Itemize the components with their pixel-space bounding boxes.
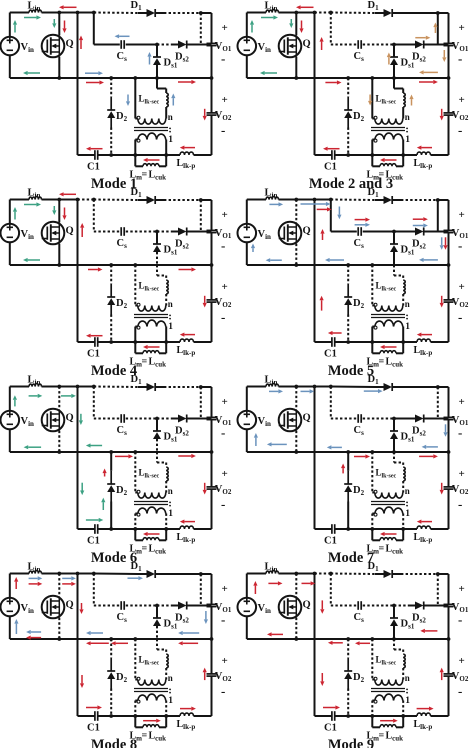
wire left vertical from top rail to bottom rail — [77, 387, 79, 530]
node mid rail secondary branch — [370, 450, 374, 454]
leakage inductor Llk-p — [180, 152, 194, 155]
wire secondary left vertical — [134, 78, 136, 119]
current arrow red — [81, 228, 83, 237]
wire top rail Q node to left-vertical node — [59, 12, 77, 14]
wire Q drain vertical — [295, 387, 297, 410]
svg-text:1: 1 — [168, 696, 173, 706]
wire left source branch of Vin — [246, 13, 248, 37]
output capacitor VO1 — [444, 603, 454, 605]
transformer primary winding 1 — [135, 513, 138, 515]
node top rail Q drain — [57, 11, 61, 15]
wire right rail VO2 to bottom — [448, 115, 450, 155]
wire D2 upper — [110, 639, 112, 658]
current arrow red — [184, 521, 195, 523]
svg-text:-: - — [458, 612, 462, 627]
wire bottom rail left — [78, 528, 95, 530]
wire top rail to D1 anode — [331, 386, 375, 389]
wire Cs feed corner — [330, 387, 332, 419]
current arrow green — [251, 25, 253, 33]
diode Ds2 — [178, 415, 187, 423]
wire top-right elbow to right rail — [438, 573, 449, 575]
node mid rail right rail — [447, 637, 451, 641]
svg-text:+: + — [459, 281, 465, 293]
diode D1 — [147, 196, 156, 204]
current arrow blue — [445, 424, 447, 432]
current arrow red — [91, 335, 103, 337]
node mid rail Q source — [294, 450, 298, 454]
wire top-right elbow to right rail — [438, 386, 449, 388]
current arrow red — [441, 483, 443, 490]
diode Ds1 — [390, 617, 398, 619]
current arrow blue — [31, 631, 41, 633]
wire D2 lower — [347, 128, 349, 156]
magnetizing inductor Lm=Lcuk loop — [134, 155, 136, 166]
capacitor C1 — [331, 524, 333, 534]
wire D1 cathode to corner node — [155, 199, 164, 201]
transformer secondary winding n — [135, 118, 138, 120]
node at D1 corner — [436, 11, 440, 15]
capacitor Cs — [357, 227, 359, 236]
transformer secondary winding n — [135, 305, 138, 307]
svg-text:=: = — [379, 544, 385, 555]
transistor Q MOSFET — [42, 35, 65, 58]
node top rail Q drain — [57, 572, 61, 576]
wire top rail Lin to Q drain node — [279, 386, 297, 388]
current arrow red — [328, 148, 340, 150]
current arrow orange — [388, 57, 390, 64]
wire to Llk-p — [166, 154, 180, 156]
transformer secondary winding n — [372, 118, 375, 120]
node mid rail Ds1 branch — [392, 637, 396, 641]
output capacitor VO1 — [444, 42, 454, 44]
svg-text:=: = — [379, 731, 385, 742]
node bottom rail D2 — [346, 527, 350, 531]
wire Llk-sec to secondary winding — [402, 668, 404, 680]
current arrow red — [204, 672, 206, 680]
wire bottom rail under primary — [372, 715, 403, 717]
svg-text:n: n — [405, 673, 410, 683]
svg-text:C1: C1 — [324, 536, 337, 547]
current arrow green — [80, 414, 82, 421]
svg-text:-: - — [458, 310, 462, 325]
leakage inductor Llk-sec — [403, 280, 405, 294]
wire Llk-p to right rail — [431, 715, 449, 717]
current arrow orange — [434, 27, 436, 33]
node top rail Cs corner — [329, 198, 333, 202]
diode D1 — [384, 383, 393, 391]
wire vertical drop from D1 corner node — [200, 574, 202, 606]
wire bottom rail C1 to transformer — [98, 528, 135, 530]
transformer core — [134, 127, 168, 129]
wire jog Ds1 to Llk-sec — [156, 639, 158, 650]
node mid rail Q source — [294, 76, 298, 80]
node mid rail secondary branch — [370, 76, 374, 80]
transformer secondary winding n — [372, 492, 375, 494]
wire Cs feed corner — [93, 574, 95, 606]
node mid rail Q source — [294, 263, 298, 267]
wire right rail VO1 to mid rail — [211, 420, 213, 452]
node mid rail right rail — [447, 263, 451, 267]
wire primary left vertical — [134, 327, 136, 343]
wire top rail to Cs corner — [315, 12, 331, 14]
leakage inductor Llk-p — [180, 713, 194, 716]
node Ds1 top — [392, 43, 396, 47]
current arrow red — [333, 332, 342, 334]
current arrow red — [360, 642, 370, 644]
svg-text:=: = — [142, 731, 148, 742]
current arrow red — [81, 675, 83, 683]
leakage inductor Llk-p — [180, 339, 194, 342]
wire primary right vertical — [402, 140, 404, 156]
svg-text:-: - — [221, 684, 225, 699]
node mid rail D2 branch — [346, 263, 350, 267]
current arrow blue — [424, 259, 438, 261]
node mid rail secondary branch — [133, 263, 137, 267]
current arrow red — [385, 346, 397, 348]
output capacitor VO2 — [444, 299, 454, 301]
wire top rail Lin to Q drain node — [279, 573, 297, 575]
svg-text:Q: Q — [66, 39, 74, 50]
wire mid rail — [10, 638, 212, 640]
current arrow blue — [252, 248, 254, 252]
diode D2 — [347, 471, 349, 484]
magnetizing inductor Lm=Lcuk loop — [134, 342, 136, 353]
current arrow blue — [29, 577, 38, 579]
inductor Lin coil — [266, 9, 279, 12]
wire vertical drop from D1 corner node — [437, 387, 439, 419]
node mid rail Ds1 branch — [392, 76, 396, 80]
wire Cs to Ds1 node — [126, 44, 157, 46]
wire bottom rail left — [315, 528, 332, 530]
current arrow green — [28, 259, 40, 261]
panel Mode 6 — [1, 374, 232, 566]
svg-text:1: 1 — [168, 135, 173, 145]
wire bottom rail under primary — [372, 154, 403, 156]
wire bottom rail C1 to transformer — [98, 715, 135, 717]
wire Ds1 to mid rail — [156, 252, 158, 265]
magnetizing inductor Lm=Lcuk loop — [134, 529, 136, 540]
wire Ds1 to mid rail — [393, 65, 395, 78]
current arrow blue — [269, 203, 278, 205]
svg-text:+: + — [459, 22, 465, 34]
svg-text:C1: C1 — [324, 723, 337, 734]
transformer core — [134, 314, 168, 316]
wire right rail VO2 to bottom — [448, 676, 450, 716]
wire right rail mid to VO2 — [448, 78, 450, 113]
output capacitor VO1 — [444, 229, 454, 231]
panel Mode 2 and 3 — [238, 0, 469, 192]
panel Mode 4 — [1, 187, 232, 379]
wire right rail VO1 to mid rail — [211, 46, 213, 78]
diode D2 — [110, 97, 112, 110]
svg-text:+: + — [222, 468, 228, 480]
current arrow orange — [369, 95, 371, 101]
node at D1 corner — [199, 572, 203, 576]
leakage inductor Llk-sec — [403, 93, 405, 107]
node Ds1 top — [155, 604, 159, 608]
output capacitor VO2 — [207, 486, 217, 488]
svg-text:=: = — [142, 544, 148, 555]
wire vertical drop from D1 corner node — [437, 574, 439, 606]
current arrow blue — [270, 259, 282, 261]
transformer core — [134, 688, 168, 690]
wire right rail VO2 to bottom — [211, 676, 213, 716]
wire Q internal vertical — [58, 35, 60, 56]
wire D2 lower — [347, 502, 349, 530]
diode D1 — [384, 9, 393, 17]
node top rail Cs corner — [92, 572, 96, 576]
wire jog Ds1 to Llk-sec — [393, 78, 395, 89]
wire right rail mid to VO2 — [211, 639, 213, 674]
node top rail left-vertical — [313, 11, 317, 15]
node mid rail right rail — [210, 637, 214, 641]
wire Cs to Ds1 node — [363, 44, 394, 46]
node top rail left-vertical — [313, 572, 317, 576]
node mid rail D2 branch — [109, 450, 113, 454]
node bottom rail D2 — [109, 153, 113, 157]
current arrow red — [413, 218, 424, 220]
current arrow blue — [338, 207, 340, 215]
wire to Llk-p — [403, 154, 417, 156]
wire bottom rail under primary — [135, 528, 166, 530]
svg-text::: : — [168, 311, 172, 323]
transformer primary winding 1 — [372, 139, 375, 141]
current arrow blue — [301, 203, 326, 205]
current arrow blue — [272, 443, 287, 445]
wire Ds2 cathode to VO1 — [424, 605, 449, 607]
voltage source Vin — [238, 598, 257, 617]
wire Q internal vertical — [295, 596, 297, 617]
wire Ds1 anode stub — [156, 232, 158, 245]
capacitor Cs — [120, 414, 122, 423]
wire top rail to Cs corner — [78, 199, 94, 201]
node top rail Cs corner — [329, 572, 333, 576]
current arrow red — [254, 586, 256, 594]
capacitor C1 — [331, 337, 333, 347]
magnetizing inductor Lm=Lcuk loop — [371, 529, 373, 540]
current arrow red — [272, 633, 283, 635]
wire Cs to Ds1 node — [363, 605, 394, 607]
svg-text:+: + — [222, 396, 228, 408]
wire left source branch of Vin — [9, 387, 11, 411]
wire Llk-p to right rail — [194, 154, 212, 156]
current arrow red — [86, 82, 99, 84]
current arrow red — [91, 148, 103, 150]
diode Ds1 — [153, 56, 161, 58]
svg-text:1: 1 — [405, 696, 410, 706]
wire Q internal vertical — [295, 222, 297, 243]
wire jog Ds1 to Llk-sec — [156, 265, 158, 276]
wire mid rail — [247, 77, 449, 79]
transformer core — [371, 314, 405, 316]
current arrow green — [14, 25, 16, 33]
wire Q drain vertical — [58, 574, 60, 597]
wire primary right vertical — [165, 327, 167, 343]
wire to Llk-p — [403, 341, 417, 343]
wire right rail mid to VO2 — [211, 78, 213, 113]
wire right rail VO1 to mid rail — [448, 607, 450, 639]
current arrow red — [64, 193, 76, 195]
diode Ds2 — [178, 41, 187, 49]
wire top rail Q node to left-vertical node — [296, 386, 314, 388]
wire primary left vertical — [134, 514, 136, 530]
node mid rail secondary branch — [133, 637, 137, 641]
wire D2 lower — [110, 689, 112, 717]
wire Ds1 node to Ds2 anode — [157, 418, 172, 420]
transformer secondary winding n — [372, 679, 375, 681]
node bottom rail primary right — [164, 714, 168, 718]
wire left source branch of Vin — [9, 13, 11, 37]
current arrow blue — [15, 624, 17, 634]
wire Q source vertical — [295, 57, 297, 78]
node bottom rail D2 — [109, 527, 113, 531]
svg-text:1: 1 — [405, 322, 410, 332]
wire top rail to Cs corner — [315, 199, 331, 201]
node top rail Q drain — [294, 11, 298, 15]
wire Cs feed corner — [93, 200, 95, 232]
inductor Lin coil — [266, 383, 279, 386]
wire Ds1 anode stub — [393, 232, 395, 245]
svg-text:Mode 8: Mode 8 — [91, 737, 137, 748]
wire top rail Q node to left-vertical node — [296, 12, 314, 14]
wire bottom rail left — [315, 154, 332, 156]
node mid rail Q source — [57, 450, 61, 454]
current arrow red — [385, 159, 397, 161]
node at D1 corner — [199, 198, 203, 202]
current arrow red — [88, 269, 98, 271]
wire right rail VO1 to mid rail — [448, 420, 450, 452]
node Ds1 top — [392, 230, 396, 234]
svg-text:+: + — [222, 94, 228, 106]
transformer primary winding 1 — [135, 700, 138, 702]
transformer core — [134, 501, 168, 503]
node mid rail secondary branch — [370, 637, 374, 641]
wire Q source vertical — [58, 431, 60, 452]
wire right rail mid to VO2 — [211, 452, 213, 487]
wire mid rail — [10, 451, 212, 453]
svg-text:+: + — [459, 94, 465, 106]
node top rail left-vertical — [313, 385, 317, 389]
capacitor Cs — [120, 227, 122, 236]
current arrow red — [421, 521, 432, 523]
node at D1 corner — [436, 198, 440, 202]
transformer primary winding 1 — [372, 700, 375, 702]
wire left source branch of Vin — [9, 200, 11, 224]
wire top rail Q node to left-vertical node — [59, 386, 77, 388]
node bottom rail primary left — [370, 153, 374, 157]
svg-text:-: - — [458, 425, 462, 440]
svg-text:=: = — [142, 357, 148, 368]
wire bottom rail C1 to transformer — [98, 341, 135, 343]
current arrow blue — [441, 237, 443, 245]
diode Ds2 — [178, 228, 187, 236]
current arrow red — [325, 82, 337, 84]
svg-text:Mode 9: Mode 9 — [328, 737, 374, 748]
wire bottom rail left — [315, 341, 332, 343]
wire Q source vertical — [295, 244, 297, 265]
wire Ds2 cathode to VO1 — [187, 44, 212, 46]
wire top rail Lin to Q drain node — [42, 12, 60, 14]
diode Ds2 — [415, 415, 424, 423]
node top rail Q drain — [57, 198, 61, 202]
capacitor C1 — [94, 337, 96, 347]
current arrow red — [385, 533, 397, 535]
diode Ds2 — [415, 602, 424, 610]
node top rail Cs corner — [329, 11, 333, 15]
wire mid rail — [247, 638, 449, 640]
svg-text:n: n — [405, 112, 410, 122]
transformer primary winding 1 — [372, 513, 375, 515]
wire top rail Lin to Q drain node — [42, 386, 60, 388]
wire vertical drop from D1 corner node — [200, 387, 202, 419]
current arrow red — [321, 42, 323, 50]
svg-text:C1: C1 — [87, 349, 100, 360]
svg-text:Q: Q — [66, 226, 74, 237]
wire right rail mid to VO2 — [211, 265, 213, 300]
wire primary right vertical — [402, 701, 404, 717]
node top rail Cs corner — [92, 198, 96, 202]
svg-text:-: - — [458, 123, 462, 138]
transistor Q MOSFET — [42, 409, 65, 432]
current arrow green — [53, 206, 55, 210]
wire right rail mid to VO2 — [448, 639, 450, 674]
current arrow blue — [91, 632, 103, 634]
wire to Llk-p — [403, 715, 417, 717]
wire Llk-sec to secondary winding — [165, 668, 167, 680]
diode Ds1 — [153, 617, 161, 619]
current arrow red — [62, 583, 71, 585]
current arrow red — [184, 334, 195, 336]
magnetizing inductor Lm=Lcuk loop — [371, 716, 373, 727]
svg-text:1: 1 — [168, 509, 173, 519]
current arrow red — [64, 6, 77, 8]
current arrow red — [425, 630, 438, 632]
current arrow red — [80, 40, 82, 49]
current arrow green — [265, 72, 277, 74]
wire top rail to Cs corner — [78, 386, 94, 388]
current arrow blue — [255, 438, 257, 446]
wire top rail to D1 anode — [94, 386, 138, 389]
diode D2 — [347, 97, 349, 110]
svg-text:-: - — [221, 497, 225, 512]
wire Q source vertical — [58, 618, 60, 639]
wire top rail from Vin to Lin — [247, 386, 266, 388]
node bottom rail primary right — [164, 527, 168, 531]
wire primary left vertical — [134, 701, 136, 717]
current arrow red — [204, 483, 206, 490]
wire top rail to Cs corner — [78, 12, 94, 14]
current arrow blue — [85, 72, 98, 74]
wire right rail mid to VO2 — [448, 265, 450, 300]
current arrow red — [421, 147, 432, 149]
wire top rail Q node to left-vertical node — [296, 573, 314, 575]
current arrow red — [321, 600, 323, 609]
wire Ds1 anode stub — [393, 45, 395, 58]
wire Q drain vertical — [58, 13, 60, 36]
wire Q internal vertical — [58, 596, 60, 617]
wire bottom rail C1 to transformer — [98, 154, 135, 156]
wire Ds1 node to Ds2 anode — [394, 44, 409, 46]
wire primary left vertical — [371, 514, 373, 530]
voltage source Vin — [1, 598, 20, 617]
wire bottom rail C1 to transformer — [335, 528, 372, 530]
svg-text:+: + — [459, 396, 465, 408]
svg-text:1: 1 — [405, 135, 410, 145]
current arrow red — [333, 642, 343, 644]
node mid rail Ds1 branch — [155, 76, 159, 80]
current arrow red — [91, 642, 109, 644]
node top rail Q drain — [294, 198, 298, 202]
